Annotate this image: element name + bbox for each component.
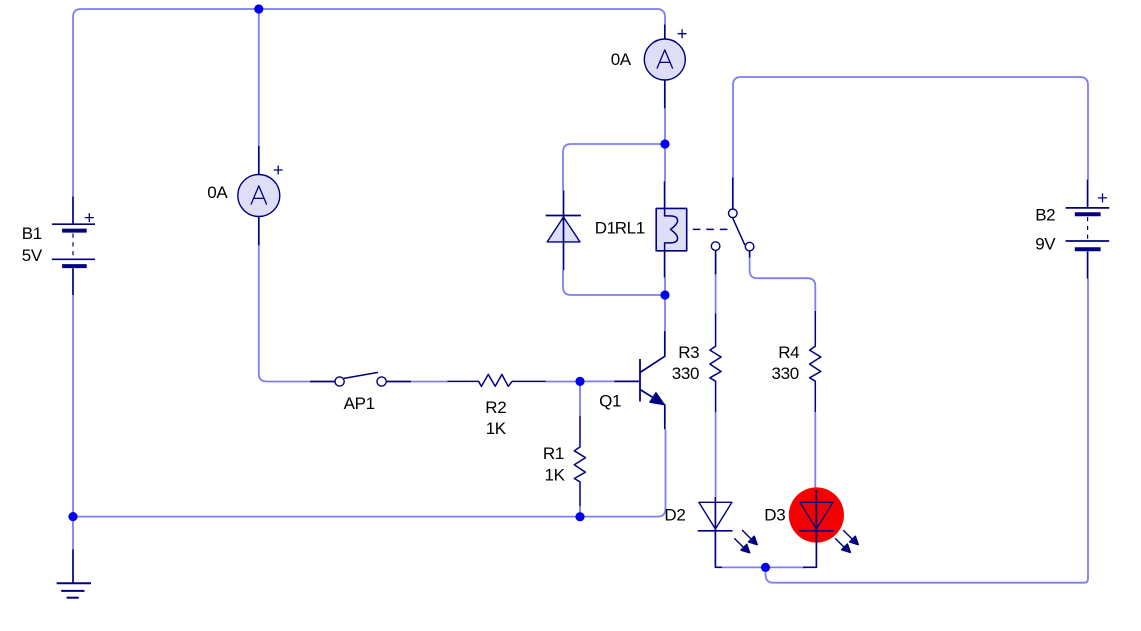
svg-text:330: 330 (772, 364, 799, 383)
ammeter U2 letter (657, 50, 673, 69)
svg-text:1K: 1K (486, 419, 507, 438)
svg-text:R4: R4 (778, 343, 799, 362)
wire B1 bottom to ground stem (72, 295, 74, 549)
svg-text:AP1: AP1 (344, 394, 375, 413)
switch AP1 (310, 372, 411, 386)
resistor R3 (710, 313, 721, 412)
resistor R1 (574, 416, 585, 506)
svg-text:D3: D3 (764, 505, 785, 524)
wire R1 bottom to bus (579, 506, 581, 517)
battery B1 (52, 197, 95, 295)
transistor Q1 (614, 331, 665, 429)
ammeter U1 letter (251, 186, 267, 205)
wire bottom bus and emitter return (73, 429, 666, 516)
node relay bottom (660, 290, 669, 299)
svg-text:D1: D1 (595, 219, 616, 238)
wire D2 cathode to LED node (722, 566, 766, 568)
wire AP1 to R2 (411, 381, 448, 383)
wire top bus from B1 to ammeter A2 branch (73, 9, 665, 197)
svg-text:5V: 5V (22, 246, 43, 265)
ammeter U2 plus (678, 29, 687, 38)
LED D3 (799, 490, 858, 567)
ammeter U2 leads (664, 25, 666, 109)
node top bus A1 tap (254, 4, 263, 13)
svg-text:9V: 9V (1035, 235, 1056, 254)
svg-text:D2: D2 (664, 505, 685, 524)
node bus left (68, 512, 77, 521)
wire relay node down to coil (664, 144, 666, 181)
relay contact pole (732, 177, 734, 208)
node Q1 base (575, 377, 584, 386)
svg-text:0A: 0A (611, 50, 632, 69)
relay contact throw 2 (711, 242, 720, 251)
svg-text:R2: R2 (485, 398, 506, 417)
resistor R4 (810, 311, 821, 412)
svg-text:B2: B2 (1035, 206, 1055, 225)
wire D1 bottom to node (563, 270, 665, 295)
wire B2 bottom loop to LED node (766, 279, 1089, 583)
wire base node down to R1 (579, 381, 581, 415)
battery B2 (1066, 180, 1110, 279)
node LED cathodes (761, 563, 770, 572)
LED D3 body (789, 487, 844, 542)
svg-text:1K: 1K (545, 466, 566, 485)
wire R2 to base node (546, 381, 580, 383)
relay coil RL1 (656, 181, 687, 277)
relay link dashed (693, 228, 728, 230)
ammeter U1 (238, 175, 280, 217)
wire R4 to D3 (814, 412, 816, 490)
svg-text:B1: B1 (22, 224, 42, 243)
svg-text:0A: 0A (207, 183, 228, 202)
wire LED node to D3 cathode (766, 566, 806, 568)
svg-text:Q1: Q1 (599, 392, 621, 411)
svg-text:R3: R3 (678, 343, 699, 362)
svg-text:RL1: RL1 (615, 219, 645, 238)
relay contact lever (732, 217, 745, 245)
wire ammeter A1 branch upper (258, 9, 260, 146)
ground (57, 549, 91, 597)
wire base node to Q1 base lead (580, 380, 614, 382)
diode D1 (546, 191, 581, 271)
svg-text:330: 330 (672, 364, 699, 383)
LED D2 (698, 497, 757, 567)
relay contact throw 1 (745, 242, 754, 251)
node bus R1 (575, 512, 584, 521)
wire ammeter A2 to relay node (664, 108, 666, 144)
svg-text:R1: R1 (543, 444, 564, 463)
wire ammeter A1 bottom to switch AP1 (259, 245, 310, 381)
wire coil bottom to lower node (664, 278, 666, 295)
wire lower node to Q1 collector (664, 295, 666, 331)
ammeter U1 plus (274, 166, 283, 175)
wire right loop top to B2 (733, 77, 1088, 180)
wire relay pole contact to R4 (750, 258, 816, 311)
ammeter U1 leads (258, 146, 260, 245)
wire relay NO contact to R3 (715, 274, 717, 313)
wire R3 to D2 (715, 412, 717, 497)
node relay top (660, 139, 669, 148)
resistor R2 (448, 374, 546, 386)
ammeter U2 (644, 39, 685, 80)
wire node to D1 top (563, 144, 665, 191)
